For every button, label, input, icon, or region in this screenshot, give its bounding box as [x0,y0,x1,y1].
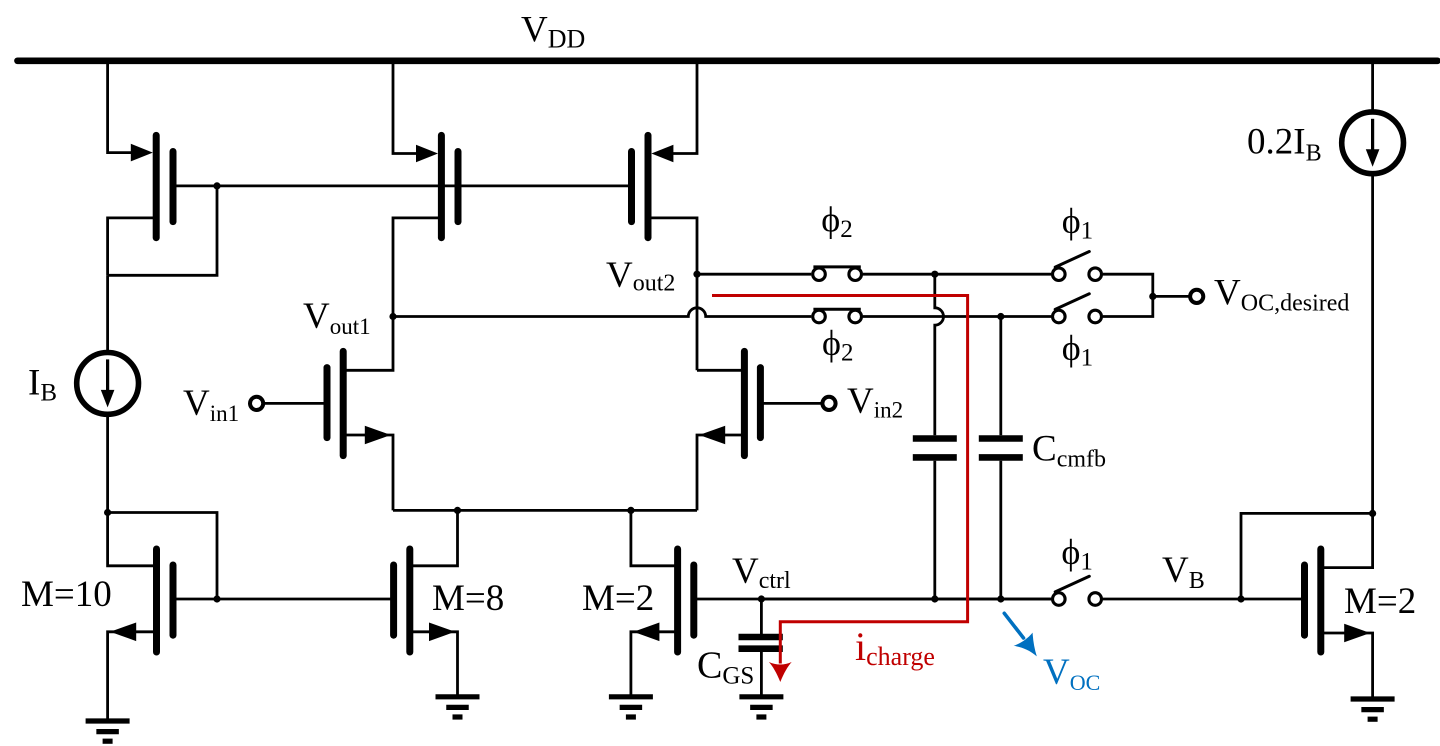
node Vout1 [389,313,396,320]
svg-text:Vin1: Vin1 [183,383,239,426]
svg-text:M=2: M=2 [1344,581,1416,622]
arrowhead icharge [769,662,792,682]
pmos P3 source arrow [651,145,673,163]
capacitor Ccmfb1 bottom plate [913,454,957,461]
switch phi2 upper right contact [849,268,862,281]
wire Vctrl to caps [761,598,1051,601]
capacitor Ccmfb2 top plate [979,435,1023,442]
svg-text:VDD: VDD [521,10,585,54]
pmos P3 drain wire [648,218,697,370]
switch phi1 upper left contact [1053,268,1066,281]
nmos M10 channel bar [153,549,160,652]
pmos P3 source wire from VDD [667,61,697,154]
pmos P1 drain wire [108,218,157,275]
pmos P1 source arrow [131,144,153,162]
nmos N1 drain wire [343,317,393,371]
node VB diode junction [1237,595,1244,602]
switch phi1 lower left contact [1053,310,1066,323]
svg-text:M=10: M=10 [21,574,112,615]
pmos P2 channel bar [438,135,445,237]
nmos M2 drain wire [631,510,678,565]
output terminal VOCdesired [1190,290,1203,303]
power rail VDD [18,57,1438,64]
input terminal Vin2 [822,397,835,410]
svg-text:Vin2: Vin2 [847,381,903,423]
nmos M8 source arrow [429,623,455,642]
node top of Ccmfb2 [997,313,1004,320]
svg-text:Vctrl: Vctrl [732,551,791,594]
switch phi2 upper closed arm [813,265,860,268]
switch phi1 upper right contact [1089,268,1102,281]
nmos N1 source wire [343,435,393,510]
nmos M2R channel bar [1317,549,1324,652]
wire VB line [1103,598,1303,601]
pmos mirror gate line [174,184,632,187]
svg-text:ϕ1: ϕ1 [1062,201,1093,245]
switch phi2 lower right contact [849,310,862,323]
svg-text:ϕ2: ϕ2 [822,323,853,367]
nmos M10 source arrow [110,623,136,642]
svg-text:M=2: M=2 [582,578,654,619]
switch phi2 upper left contact [813,268,826,281]
nmos N2 source wire [697,435,744,510]
switch phi1 bottom left contact [1053,593,1066,606]
ground below M2 [609,694,653,699]
switch phi1 bottom right contact [1089,593,1102,606]
nmos M2 source arrow [633,623,659,642]
nmos M2 channel bar [674,549,681,652]
switch phi2 lower left contact [813,310,826,323]
wire Ccmfb2 top lead [999,317,1002,436]
capacitor CGS bottom plate [739,645,783,652]
current source 0.2IB [1342,112,1404,174]
wire Vctrl to CGS [760,599,763,634]
ground below CGS [739,694,783,699]
svg-text:IB: IB [28,362,57,406]
pmos P2 drain wire [393,218,441,317]
pmos P3 gate bar [628,152,635,222]
svg-text:VB: VB [1162,550,1205,594]
svg-text:0.2IB: 0.2IB [1247,122,1322,167]
pmos P2 source arrow [416,145,438,163]
arrow VOC blue [1004,613,1023,638]
wire IB node to M10 gate [108,513,217,600]
node Vout2 [693,271,700,278]
nmos M10 drain wire [108,514,157,566]
wire Ccmfb2 bottom lead [999,461,1002,599]
wire Ccmfb1 bottom lead [933,461,936,599]
ground below M2R [1351,696,1395,701]
nmos M10 gate bar [170,565,177,635]
wire M2 gate to phi1 switch [695,598,1051,601]
nmos M8 source wire [410,632,458,697]
wire icharge red path [712,296,968,664]
nmos M2R gate bar [1301,565,1308,635]
nmos M8 drain wire [410,510,458,565]
nmos mirror gate line M10-M8 [174,598,394,601]
nmos M2 source wire [631,632,678,697]
nmos M8 gate bar [390,565,397,635]
switch phi1 bottom open arm [1055,576,1089,592]
capacitor CGS top plate [739,634,783,641]
wire phi1 to output corner upper [1103,274,1153,296]
switch phi2 lower closed arm [813,308,860,311]
nmos N2 gate bar [757,368,764,438]
node M2R drain junction [1369,510,1376,517]
svg-text:Vout1: Vout1 [303,296,371,339]
wire to VOC desired terminal [1153,295,1190,298]
nmos N2 channel bar [741,351,748,455]
svg-text:Ccmfb: Ccmfb [1032,429,1106,473]
nmos N1 source arrow [365,426,391,445]
nmos N2 gate wire [762,402,822,405]
capacitor Ccmfb2 bottom plate [979,454,1023,461]
switch phi1 lower open arm [1055,294,1089,310]
wire Ccmfb1 top lead with hop [935,274,944,435]
node P1 gate-drain junction [213,182,220,189]
nmos N2 drain wire [697,369,744,372]
pmos P1 channel bar [153,135,160,237]
ground below M8 [436,694,480,699]
ground below M10 [86,718,130,723]
node M10 gate junction [213,595,220,602]
wire 0.2IB to M2R drain [1371,174,1374,514]
pmos P2 gate bar [455,152,462,222]
pmos P1 gate bar [170,152,177,222]
node output junction [1149,293,1156,300]
wire phi2 lower to phi1 lower [863,315,1051,318]
wire Vout2 to phi2 switch [697,273,811,276]
node Ccmfb1 bottom [931,595,938,602]
pmos P2 source wire from VDD [393,61,423,154]
wire phi2 to node A [863,273,935,276]
svg-text:M=8: M=8 [432,578,504,619]
node IB bottom junction [104,509,111,516]
wire Vout1 with hop over Vout2 drop [393,308,811,317]
nmos N1 channel bar [340,351,347,455]
wire CGS to ground [760,652,763,697]
node tail left [454,507,461,514]
svg-text:VOC: VOC [1043,652,1100,695]
switch phi1 lower right contact [1089,310,1102,323]
current source IB [77,353,139,415]
pmos P3 channel bar [645,135,652,237]
svg-text:ϕ1: ϕ1 [1061,532,1092,576]
nmos N1 gate bar [324,368,331,438]
svg-text:VOC,desired: VOC,desired [1214,273,1349,317]
node Vctrl [758,595,765,602]
wire tail [393,509,697,512]
node A top of Ccmfb1 [931,271,938,278]
switch phi1 upper open arm [1055,252,1089,268]
capacitor Ccmfb1 top plate [913,435,957,442]
wire phi1 to output corner lower [1103,296,1153,316]
nmos N1 gate wire [264,402,325,405]
svg-text:icharge: icharge [855,624,935,671]
nmos M8 channel bar [406,549,413,652]
svg-text:ϕ2: ϕ2 [821,200,852,244]
wire P1 drain to IB [106,275,109,353]
wire M2R diode connection [1241,513,1373,599]
pmos P1 source wire from VDD [108,61,138,153]
wire IB to node [106,414,109,513]
nmos M2R source wire [1321,633,1373,699]
wire VDD to 0.2IB [1371,61,1374,112]
nmos M2 gate bar [690,565,697,635]
node tail right [627,507,634,514]
svg-text:Vout2: Vout2 [606,255,675,297]
wire P1 diode connection [108,186,217,275]
nmos M2R drain wire [1321,513,1373,567]
nmos N2 source arrow [699,426,725,445]
nmos M10 source wire [108,632,157,721]
nmos M2R source arrow [1344,624,1370,643]
input terminal Vin1 [250,397,263,410]
wire node A to phi1 switch [935,273,1051,276]
node Ccmfb2 bottom [997,595,1004,602]
svg-text:ϕ1: ϕ1 [1062,328,1093,372]
